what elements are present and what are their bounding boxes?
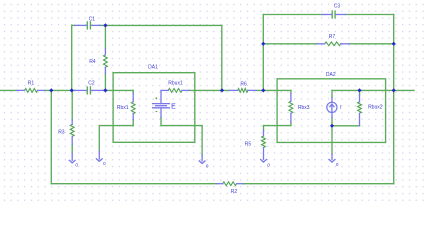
svg-text:R6: R6 bbox=[240, 81, 247, 87]
svg-text:C3: C3 bbox=[334, 4, 341, 10]
svg-text:R4: R4 bbox=[89, 59, 96, 65]
svg-text:C1: C1 bbox=[89, 17, 96, 23]
svg-text:R2: R2 bbox=[231, 189, 238, 195]
svg-text:0: 0 bbox=[103, 161, 106, 166]
svg-text:0: 0 bbox=[336, 162, 339, 167]
svg-text:E: E bbox=[171, 103, 176, 110]
svg-text:0: 0 bbox=[75, 163, 78, 168]
svg-text:Rbux1: Rbux1 bbox=[168, 81, 183, 87]
svg-text:R3: R3 bbox=[58, 130, 65, 136]
svg-text:DA2: DA2 bbox=[326, 72, 336, 78]
svg-text:DA1: DA1 bbox=[148, 65, 158, 71]
svg-text:Rbux2: Rbux2 bbox=[368, 105, 383, 111]
svg-text:I: I bbox=[340, 105, 341, 111]
svg-text:R7: R7 bbox=[329, 34, 336, 40]
svg-text:R1: R1 bbox=[28, 81, 35, 87]
svg-text:0: 0 bbox=[206, 164, 209, 169]
svg-text:R5: R5 bbox=[245, 141, 252, 147]
svg-text:Rbx3: Rbx3 bbox=[298, 105, 310, 111]
svg-text:0: 0 bbox=[267, 162, 270, 167]
svg-text:C2: C2 bbox=[88, 80, 95, 86]
svg-text:Rbx1: Rbx1 bbox=[117, 105, 129, 111]
